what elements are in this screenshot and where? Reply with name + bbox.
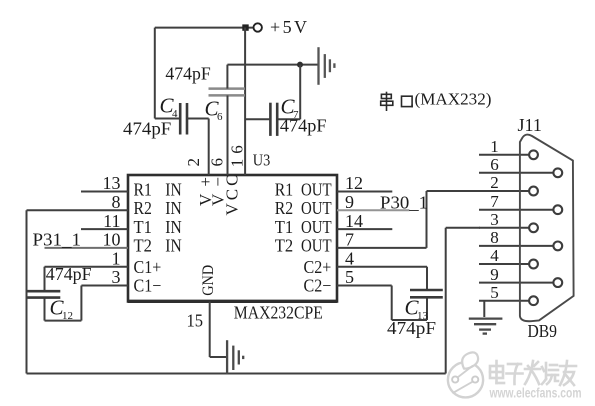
svg-text:16: 16 (227, 145, 246, 167)
svg-text:IN: IN (165, 179, 181, 199)
svg-text:R1: R1 (134, 179, 152, 199)
svg-text:IN: IN (165, 198, 181, 218)
svg-text:P31_1: P31_1 (33, 229, 82, 249)
svg-text:6: 6 (207, 158, 226, 167)
svg-text:R2: R2 (134, 198, 152, 218)
svg-text:OUT: OUT (301, 179, 332, 199)
svg-text:2: 2 (490, 173, 499, 192)
svg-text:474pF: 474pF (123, 118, 171, 138)
svg-text:GND: GND (200, 265, 217, 296)
svg-text:T1: T1 (275, 217, 293, 237)
svg-text:13: 13 (103, 173, 121, 193)
svg-text:7: 7 (345, 230, 354, 250)
svg-text:DB9: DB9 (528, 321, 558, 341)
svg-text:6: 6 (217, 111, 223, 123)
svg-text:11: 11 (103, 211, 120, 231)
svg-text:IN: IN (165, 217, 181, 237)
svg-text:474pF: 474pF (280, 116, 327, 136)
svg-text:OUT: OUT (301, 217, 332, 237)
svg-text:www.elecfans.com: www.elecfans.com (489, 386, 582, 401)
svg-text:OUT: OUT (301, 198, 332, 218)
svg-text:+5V: +5V (270, 17, 307, 37)
svg-text:8: 8 (112, 192, 121, 212)
svg-text:10: 10 (103, 230, 121, 250)
svg-text:7: 7 (490, 192, 499, 211)
svg-text:R1: R1 (275, 179, 293, 199)
svg-text:1: 1 (112, 248, 121, 268)
svg-text:R2: R2 (275, 198, 293, 218)
svg-text:15: 15 (187, 311, 204, 331)
svg-text:3: 3 (112, 267, 121, 287)
svg-text:J11: J11 (518, 115, 542, 135)
svg-text:6: 6 (490, 155, 499, 174)
svg-text:C2+: C2+ (304, 257, 332, 277)
svg-text:5: 5 (490, 283, 499, 302)
svg-text:(MAX232): (MAX232) (415, 89, 492, 108)
svg-text:9: 9 (490, 265, 499, 284)
svg-text:14: 14 (345, 211, 363, 231)
svg-text:C2−: C2− (304, 276, 332, 296)
svg-text:474pF: 474pF (165, 63, 210, 83)
svg-text:U3: U3 (253, 151, 270, 170)
svg-text:OUT: OUT (301, 236, 332, 256)
svg-text:4: 4 (172, 108, 178, 120)
svg-text:T2: T2 (275, 236, 293, 256)
svg-text:474pF: 474pF (387, 318, 436, 338)
svg-text:4: 4 (345, 248, 354, 268)
svg-text:12: 12 (62, 310, 73, 322)
svg-text:5: 5 (345, 267, 354, 287)
svg-text:T2: T2 (134, 236, 152, 256)
svg-text:IN: IN (165, 236, 181, 256)
svg-text:12: 12 (345, 173, 363, 193)
svg-text:MAX232CPE: MAX232CPE (234, 303, 323, 323)
svg-text:9: 9 (345, 192, 354, 212)
svg-text:3: 3 (490, 210, 499, 229)
svg-text:1: 1 (490, 137, 499, 156)
svg-text:T1: T1 (134, 217, 152, 237)
svg-text:VCC: VCC (223, 175, 242, 216)
svg-text:P30_1: P30_1 (380, 192, 428, 212)
svg-text:C1−: C1− (134, 276, 162, 296)
svg-text:8: 8 (490, 228, 499, 247)
svg-text:474pF: 474pF (46, 264, 92, 284)
svg-text:2: 2 (184, 158, 203, 167)
svg-text:4: 4 (490, 246, 499, 265)
svg-text:C1+: C1+ (134, 257, 162, 277)
